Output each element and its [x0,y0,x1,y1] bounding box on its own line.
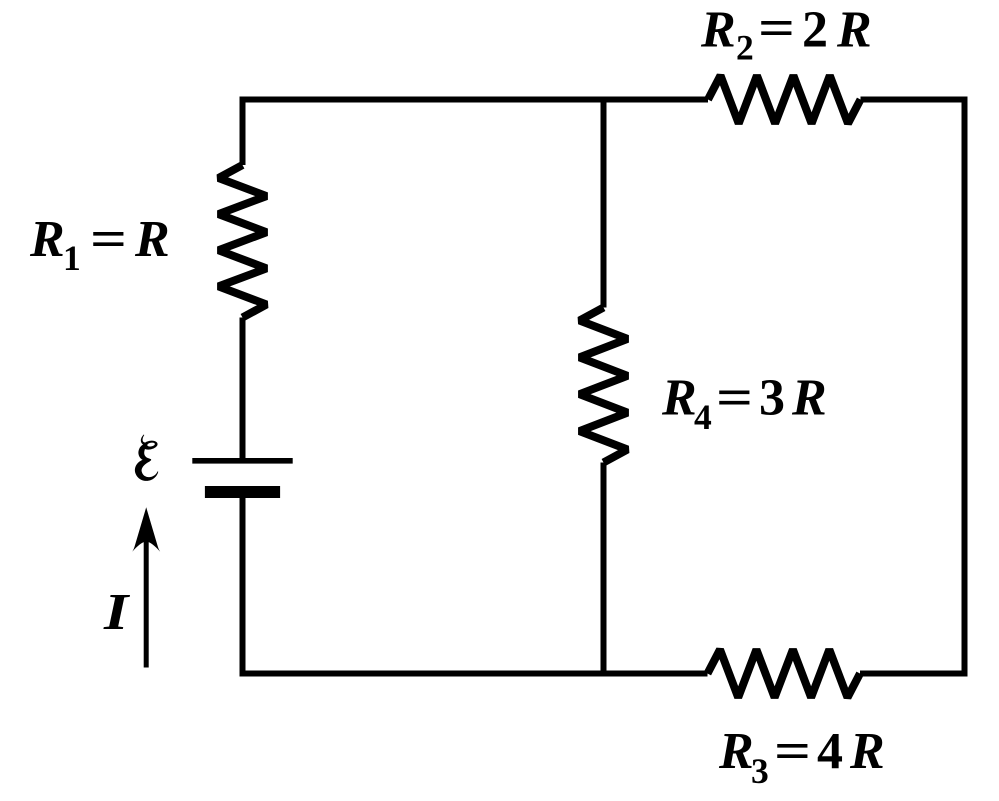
svg-text:=: = [90,210,127,267]
svg-text:1: 1 [63,238,81,278]
svg-text:R: R [661,370,697,427]
svg-text:2: 2 [802,2,828,59]
svg-text:R: R [700,2,736,59]
svg-text:R: R [791,370,827,427]
svg-text:R: R [29,211,65,268]
svg-text:R: R [134,211,170,268]
svg-text:2: 2 [736,28,754,68]
svg-text:3: 3 [751,751,769,791]
svg-text:=: = [716,369,753,426]
svg-text:I: I [103,584,130,641]
svg-text:4: 4 [817,723,843,780]
svg-text:=: = [774,722,811,779]
svg-text:=: = [758,0,795,56]
svg-text:3: 3 [759,370,785,427]
svg-text:R: R [849,723,885,780]
svg-text:R: R [836,2,872,59]
svg-text:R: R [718,723,754,780]
svg-text:4: 4 [694,397,712,437]
